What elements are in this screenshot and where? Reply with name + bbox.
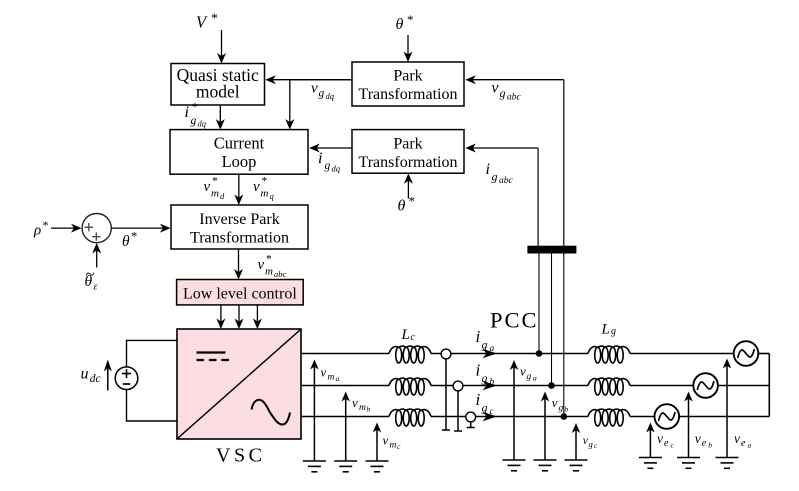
svg-text:v: v — [520, 364, 526, 379]
svg-text:b: b — [565, 405, 569, 414]
wire phase a VSC to Lc — [301, 353, 389, 355]
arrow v_mc — [373, 423, 382, 461]
svg-text:g: g — [527, 372, 532, 382]
svg-text:*: * — [407, 12, 414, 27]
svg-text:q: q — [270, 191, 275, 201]
wire gate signal 1 from Low level control to VSC — [216, 305, 225, 329]
svg-text:v: v — [311, 81, 318, 97]
label u_dc — [81, 366, 101, 385]
PCC measurement bar — [527, 246, 576, 254]
svg-text:a: a — [336, 374, 340, 383]
summing junction — [82, 214, 111, 243]
label v_eb — [695, 431, 713, 450]
svg-text:abc: abc — [499, 176, 514, 186]
arrow v_gc — [572, 423, 581, 460]
wire v_gdq branch into Current Loop — [285, 80, 294, 130]
svg-text:Park: Park — [393, 67, 422, 84]
svg-text:Transformation: Transformation — [359, 86, 458, 103]
svg-text:ρ: ρ — [33, 223, 41, 239]
label theta* bottom — [398, 194, 416, 215]
svg-text:*: * — [212, 176, 218, 188]
svg-text:u: u — [81, 366, 89, 383]
svg-text:*: * — [266, 254, 272, 266]
wire i_gabc vertical from PCC bar — [537, 148, 539, 247]
arrow i_gb on wire — [483, 381, 498, 390]
svg-text:i: i — [486, 161, 490, 178]
label i_gc — [476, 390, 495, 417]
svg-text:*: * — [211, 11, 218, 26]
label i_gb — [476, 361, 495, 388]
svg-text:m: m — [390, 441, 397, 451]
ground v_ea — [716, 458, 739, 469]
svg-text:v: v — [253, 179, 260, 195]
svg-text:V: V — [196, 13, 208, 32]
svg-text:a: a — [748, 441, 752, 450]
ground v_mb — [334, 461, 357, 472]
label theta* top — [396, 12, 414, 33]
arrow i_ga on wire — [483, 349, 498, 358]
wire dc source bottom vertical — [126, 390, 128, 422]
wire dc top to VSC — [126, 339, 177, 341]
svg-text:θ: θ — [85, 273, 93, 290]
svg-text:g: g — [589, 439, 593, 449]
svg-text:dq: dq — [332, 164, 341, 174]
ground v_eb — [677, 458, 700, 469]
ground v_ec — [639, 458, 662, 469]
wire V* into Quasi static model — [217, 30, 226, 64]
wire phase c source to bus — [679, 416, 769, 418]
svg-text:v: v — [734, 431, 740, 446]
label v_mc — [383, 433, 402, 452]
svg-text:b: b — [367, 405, 371, 414]
svg-text:m: m — [359, 403, 366, 413]
svg-text:Transformation: Transformation — [359, 154, 458, 171]
label v_ea — [734, 431, 752, 450]
node phase b PCC junction — [548, 382, 555, 389]
wire phase c VSC to Lc — [301, 416, 389, 418]
ac source phase a — [734, 341, 759, 366]
svg-text:θ: θ — [122, 233, 130, 250]
svg-text:i: i — [476, 327, 481, 346]
svg-text:Current: Current — [214, 133, 265, 152]
svg-text:dc: dc — [90, 373, 101, 385]
inductor Lg phase b — [588, 378, 630, 395]
svg-text:i: i — [476, 361, 481, 380]
svg-text:*: * — [43, 218, 49, 232]
ground v_gb — [534, 460, 557, 471]
svg-text:i: i — [476, 390, 481, 409]
label Lg — [601, 322, 617, 338]
wire i_gabc into Park Transformation 2 — [465, 144, 538, 153]
wire theta* from summing junction into Inverse Park Transformation — [111, 224, 170, 233]
arrow v_gb — [541, 392, 550, 460]
ac source phase b — [693, 373, 718, 398]
wire right bus vertical — [768, 354, 770, 417]
svg-text:v: v — [657, 431, 663, 446]
ground v_mc — [366, 461, 389, 472]
inductor Lc phase c — [389, 409, 431, 426]
svg-text:b: b — [708, 441, 712, 450]
svg-text:a: a — [533, 374, 537, 383]
wire dc source top vertical — [126, 340, 128, 367]
wire v_gabc vertical from PCC bar — [563, 80, 565, 247]
wire i_gdq from Park Transformation 2 to Current Loop — [309, 144, 352, 153]
svg-text:dq: dq — [198, 119, 207, 129]
label Lc — [401, 327, 416, 343]
wire phase c Lg to source — [630, 416, 655, 418]
label v_gdq — [311, 81, 335, 102]
arrow v_ea — [723, 359, 732, 458]
dc source u_dc — [115, 367, 138, 390]
current sensor phase c — [466, 412, 476, 427]
wire i*_gdq from Quasi static model into Current Loop — [216, 105, 225, 130]
block Current Loop — [170, 130, 308, 175]
ground v_ma — [303, 461, 326, 472]
block Park Transformation 1 — [352, 62, 464, 106]
ground v_ga — [503, 460, 526, 471]
svg-text:*: * — [192, 102, 198, 114]
label v_gc — [583, 435, 598, 450]
wire phase a measurement to PCC bar — [538, 247, 540, 354]
label rho* — [33, 218, 49, 239]
svg-text:*: * — [409, 194, 416, 209]
svg-text:v: v — [695, 431, 701, 446]
inductor Lg phase a — [588, 346, 630, 363]
current sensor phase b — [453, 381, 463, 431]
svg-text:model: model — [196, 81, 240, 101]
svg-text:b: b — [490, 378, 495, 388]
svg-text:v: v — [383, 433, 389, 448]
label v*_md — [204, 176, 226, 202]
converter VSC — [177, 329, 301, 439]
wire gate signal 2 from Low level control to VSC — [235, 305, 244, 329]
label v*_mabc — [258, 254, 287, 280]
svg-text:g: g — [482, 371, 488, 385]
svg-text:v: v — [552, 395, 558, 410]
svg-text:Loop: Loop — [222, 152, 257, 171]
wire gate signal 3 from Low level control to VSC — [253, 305, 262, 329]
label v_ec — [657, 431, 675, 450]
block Inverse Park Transformation — [171, 205, 308, 249]
svg-text:g: g — [191, 115, 197, 127]
svg-text:dq: dq — [326, 91, 335, 101]
label i_ga — [476, 327, 495, 354]
svg-text:c: c — [397, 442, 401, 451]
svg-text:e: e — [702, 438, 707, 449]
svg-text:abc: abc — [507, 93, 522, 103]
block Low level control — [177, 280, 304, 305]
inductor Lc phase a — [389, 346, 431, 363]
svg-text:d: d — [220, 191, 225, 201]
svg-text:abc: abc — [274, 269, 287, 279]
svg-text:Low level control: Low level control — [183, 286, 297, 303]
svg-text:Park: Park — [393, 135, 422, 152]
wire phase c Lc to Lg — [431, 416, 588, 418]
svg-text:i: i — [185, 104, 189, 121]
svg-text:θ: θ — [398, 198, 406, 215]
svg-text:e: e — [741, 438, 746, 449]
node phase a PCC junction — [536, 350, 543, 357]
svg-text:VSC: VSC — [216, 445, 265, 467]
wire rho* into summing junction — [51, 224, 82, 233]
svg-text:m: m — [328, 373, 335, 383]
label v_gb — [552, 395, 569, 414]
wire theta_tilde_eps into summing junction — [92, 243, 101, 268]
svg-text:m: m — [261, 188, 269, 200]
svg-text:v: v — [492, 80, 499, 97]
svg-text:c: c — [594, 442, 598, 450]
svg-text:v: v — [352, 395, 358, 410]
arrow v_mb — [341, 392, 350, 461]
svg-text:PCC: PCC — [490, 308, 539, 333]
svg-text:g: g — [482, 401, 488, 415]
svg-text:g: g — [325, 160, 331, 172]
svg-text:L: L — [601, 322, 610, 338]
svg-text:a: a — [490, 344, 495, 354]
label i*_gdq — [185, 102, 207, 129]
label v*_mq — [253, 176, 275, 202]
arrow u_dc — [104, 360, 112, 391]
label v_mb — [352, 395, 371, 414]
ac source phase c — [655, 404, 680, 429]
label v_ga — [520, 364, 537, 383]
arrow v_eb — [684, 392, 693, 458]
label i_gdq — [318, 150, 341, 174]
wire v*_mabc from Inverse Park into Low level control — [234, 249, 243, 280]
svg-text:θ: θ — [396, 16, 404, 33]
wire v_gdq continued under label — [289, 79, 352, 81]
svg-text:m: m — [211, 188, 219, 200]
arrow v_ec — [646, 423, 655, 458]
wire v_gabc into Park Transformation 1 — [465, 75, 564, 84]
svg-text:g: g — [319, 88, 325, 100]
wire theta* into Park Transformation 1 — [404, 35, 413, 62]
svg-text:g: g — [492, 170, 498, 184]
svg-text:Inverse Park: Inverse Park — [199, 211, 279, 228]
wire phase b Lc to Lg — [431, 385, 588, 387]
wire v*_md v*_mq from Current Loop into Inverse Park Transformation — [234, 174, 243, 205]
wire dc bottom to VSC — [126, 420, 177, 422]
svg-text:v: v — [321, 365, 327, 380]
svg-text:v: v — [204, 179, 211, 195]
svg-text:i: i — [318, 150, 322, 167]
svg-text:c: c — [411, 332, 416, 343]
arrow v_ga — [510, 360, 519, 460]
wire phase a Lc to Lg — [431, 353, 588, 355]
wire phase b measurement to PCC bar — [551, 247, 553, 386]
svg-text:*: * — [262, 176, 268, 188]
node phase c PCC junction — [561, 413, 568, 420]
label i_gabc — [486, 161, 514, 186]
wire phase a source to bus — [758, 353, 769, 355]
label v_ma — [321, 365, 340, 384]
arrow i_gc on wire — [483, 412, 498, 421]
wire v_gdq from Park Transformation 1 to Quasi static model — [265, 75, 352, 84]
svg-text:ε: ε — [94, 282, 98, 293]
svg-text:g: g — [611, 326, 616, 337]
svg-text:L: L — [401, 327, 410, 343]
svg-text:Transformation: Transformation — [190, 230, 289, 247]
block Quasi static model — [171, 64, 265, 106]
svg-text:g: g — [482, 338, 488, 352]
ground v_gc — [565, 460, 588, 471]
label theta tilde eps — [85, 265, 98, 293]
wire phase b source to bus — [718, 385, 769, 387]
svg-text:v: v — [258, 257, 265, 273]
current sensor phase a — [441, 349, 451, 430]
svg-text:g: g — [559, 404, 564, 414]
arrow v_ma — [310, 360, 319, 461]
svg-text:e: e — [664, 438, 669, 449]
inductor Lc phase b — [389, 378, 431, 395]
wire theta* into Park Transformation 2 — [404, 173, 413, 198]
label V* — [196, 11, 218, 32]
wire phase b Lg to source — [630, 385, 693, 387]
svg-text:m: m — [265, 266, 273, 278]
svg-text:*: * — [131, 230, 137, 244]
inductor Lg phase c — [588, 409, 630, 426]
svg-text:g: g — [500, 86, 506, 100]
wire phase b VSC to Lc — [301, 385, 389, 387]
wire phase a Lg to source — [630, 353, 734, 355]
svg-text:c: c — [671, 441, 675, 450]
wire phase c measurement to PCC bar — [563, 247, 565, 417]
block Park Transformation 2 — [352, 130, 464, 174]
label v_gabc — [492, 80, 522, 103]
label theta* mid — [122, 230, 137, 251]
